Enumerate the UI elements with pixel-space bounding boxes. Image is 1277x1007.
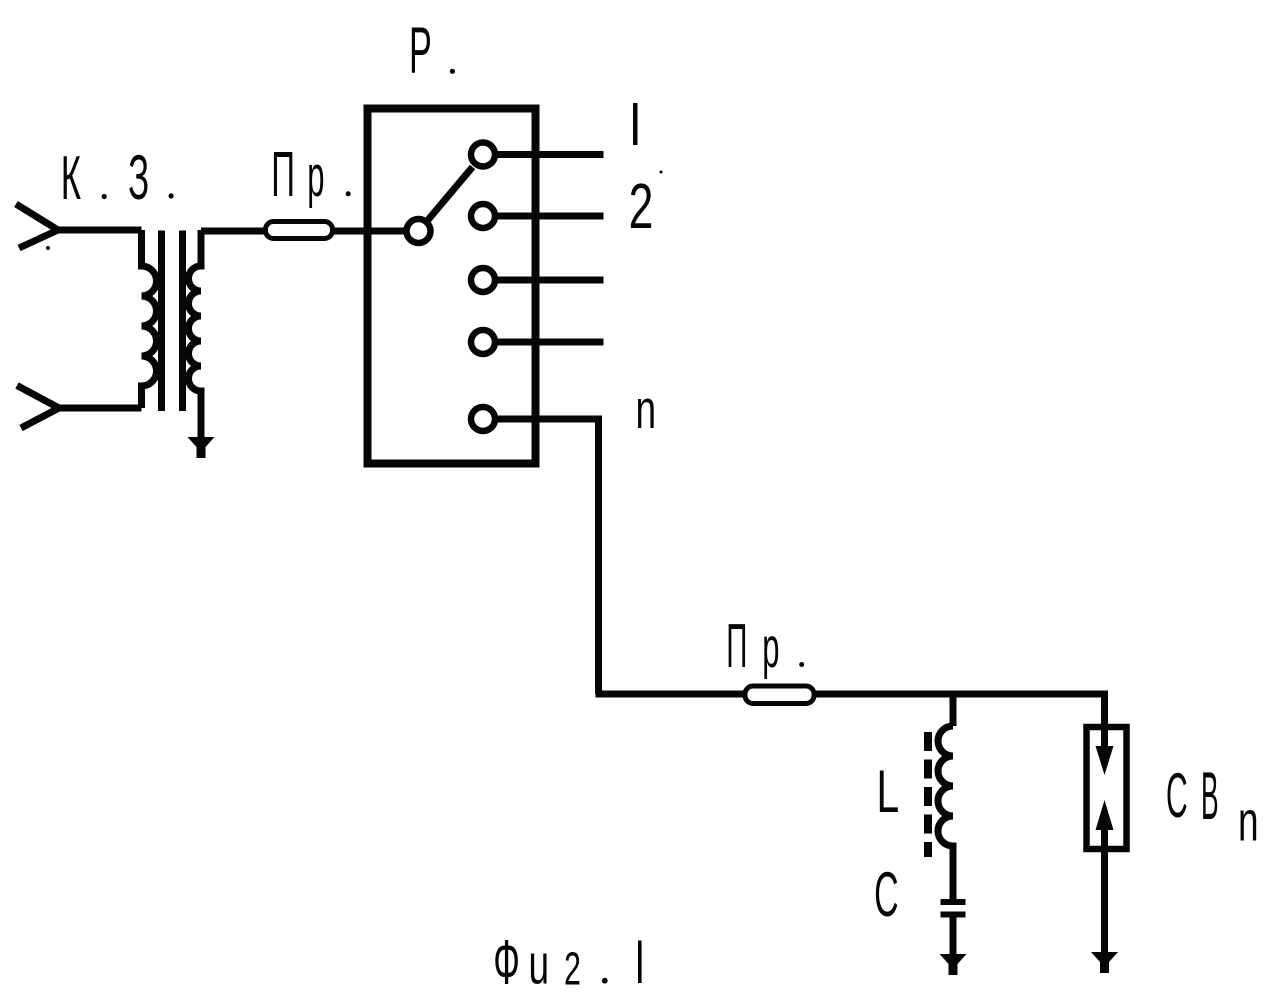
label Pr. fuse 1	[271, 138, 351, 210]
svg-text:П: П	[726, 612, 747, 681]
ground symbol arrester	[1091, 952, 1118, 973]
wire branch to L	[950, 694, 957, 726]
switch arm	[428, 167, 473, 221]
stray ink dot	[46, 246, 50, 250]
arrester Sv body	[1087, 727, 1127, 849]
wire contact 4 output	[495, 339, 604, 346]
svg-text:u: u	[529, 933, 550, 997]
wire bottom-left horizontal	[57, 405, 142, 412]
contact 1	[471, 143, 495, 167]
caption Fig.	[493, 927, 607, 998]
inductor core dashed	[924, 732, 932, 857]
svg-text:2: 2	[629, 170, 654, 242]
capacitor C plate top	[941, 899, 966, 905]
wire secondary to fuse	[201, 228, 404, 235]
wire arrester to ground	[1101, 849, 1108, 954]
svg-text:n: n	[1238, 790, 1259, 854]
contact n	[471, 407, 495, 431]
label 1	[633, 103, 638, 145]
wire lower horizontal to arrester	[596, 694, 1105, 727]
wire contact n output going down	[495, 419, 599, 694]
contact 2	[471, 204, 495, 228]
transformer K.Z. secondary winding	[189, 230, 202, 438]
inductor L winding	[938, 726, 953, 899]
contact 3	[471, 268, 495, 292]
contact 4	[471, 330, 495, 354]
transformer core line right	[179, 231, 186, 412]
wire contact 2 output	[495, 213, 604, 220]
svg-text:П: П	[271, 138, 295, 210]
svg-text:L: L	[877, 757, 900, 825]
caption figure number I	[638, 941, 642, 984]
wire contact 3 output	[495, 277, 604, 284]
svg-text:2: 2	[564, 943, 581, 995]
fuse Pr.1	[266, 222, 333, 239]
input terminal fork top	[16, 204, 58, 248]
wire contact 1 output	[495, 151, 604, 158]
svg-text:Р: Р	[409, 14, 432, 88]
svg-text:В: В	[1201, 758, 1219, 833]
svg-text:р: р	[762, 615, 779, 680]
ground symbol transformer	[188, 437, 215, 458]
label K.Z.	[61, 142, 174, 213]
label P. switch	[409, 14, 455, 88]
svg-text:Ф: Ф	[493, 927, 520, 998]
svg-text:К: К	[61, 143, 81, 212]
label Pr. fuse 2	[726, 612, 804, 681]
svg-text:С: С	[1166, 761, 1188, 831]
svg-text:C: C	[874, 859, 898, 930]
stray dot above 2	[660, 171, 663, 174]
svg-text:n: n	[636, 379, 657, 440]
switch pivot contact	[407, 219, 431, 243]
svg-text:р: р	[307, 143, 324, 208]
input terminal fork bottom	[17, 386, 59, 429]
wire capacitor to ground	[950, 917, 957, 956]
wire top-left horizontal	[56, 227, 142, 234]
switch box P.	[368, 109, 536, 464]
transformer core line left	[158, 231, 165, 412]
ground symbol capacitor	[940, 954, 967, 975]
arrester top arrow	[1096, 730, 1114, 775]
arrester bottom arrow	[1096, 800, 1114, 847]
label Sv	[1166, 758, 1219, 833]
capacitor C plate bottom	[941, 912, 966, 918]
fuse Pr.2	[745, 686, 814, 704]
svg-text:З: З	[128, 142, 149, 213]
transformer K.Z. primary winding	[142, 230, 157, 408]
